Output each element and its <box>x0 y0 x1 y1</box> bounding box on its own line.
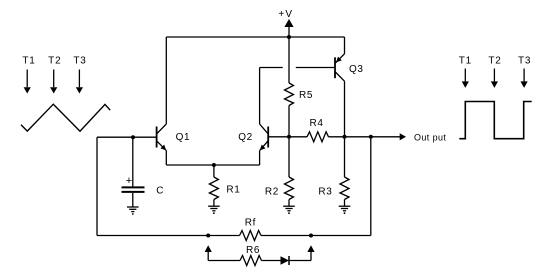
capacitor C <box>122 137 165 207</box>
wire diode to right tap <box>289 260 311 262</box>
svg-text:T3: T3 <box>518 55 531 66</box>
svg-text:Q2: Q2 <box>238 132 253 143</box>
node T1 label (input) <box>22 55 35 66</box>
transistor Q2 <box>238 124 268 165</box>
arrow marker T3 output <box>521 69 528 88</box>
svg-text:Q3: Q3 <box>349 64 364 75</box>
svg-text:R3: R3 <box>318 187 332 198</box>
node T2 label (input) <box>48 55 61 66</box>
wire R6 branch left <box>208 260 240 262</box>
wire Q3 base segment (after jump over R5 line) <box>296 67 334 69</box>
svg-text:Rf: Rf <box>245 218 256 229</box>
wire feedback line left segment <box>97 235 240 237</box>
svg-text:R2: R2 <box>265 187 279 198</box>
resistor R4 <box>307 118 329 142</box>
node T2 label (output) <box>488 55 501 66</box>
wire emitter rail <box>166 164 259 166</box>
wire Q1 collector to rail <box>165 37 167 124</box>
svg-text:+V: +V <box>278 9 293 20</box>
wire Q1 base left <box>97 136 157 138</box>
ground below R3 <box>339 206 351 214</box>
wire feedback line right segment <box>261 235 371 237</box>
svg-text:R5: R5 <box>299 90 313 101</box>
node junction output line at Q3 collector/R3 <box>343 135 347 139</box>
diode D1 <box>281 256 290 265</box>
square output waveform <box>459 102 531 139</box>
resistor R5 <box>285 37 313 137</box>
resistor R2 <box>265 137 294 206</box>
transistor Q1 <box>157 124 191 165</box>
transistor Q3 <box>335 54 364 81</box>
svg-text:R4: R4 <box>310 118 324 129</box>
wire output line right segment <box>329 136 401 138</box>
output arrow <box>400 133 406 140</box>
svg-text:T2: T2 <box>488 55 501 66</box>
svg-text:+: + <box>126 175 132 187</box>
node junction emitter rail / R1 <box>212 163 216 167</box>
node junction Q1 base / C top <box>131 135 135 139</box>
node junction feedback tap right <box>309 234 313 238</box>
node junction feedback tap left <box>206 234 210 238</box>
wire top +V rail <box>166 36 344 38</box>
node junction on +V rail <box>287 35 291 39</box>
svg-text:Q1: Q1 <box>176 132 191 143</box>
arrow marker T1 output <box>462 69 469 88</box>
node junction output line at feedback tap <box>369 135 373 139</box>
node junction output line at R5/R2 <box>287 135 291 139</box>
arrow marker T3 input <box>76 70 83 94</box>
node T3 label (input) <box>73 55 86 66</box>
arrow marker T2 input <box>50 70 57 94</box>
arrow tap left (points up at feedback line) <box>205 245 212 260</box>
node T1 label (output) <box>459 55 472 66</box>
svg-text:Out put: Out put <box>414 132 446 142</box>
ground below C <box>127 207 139 215</box>
ground below R1 <box>208 206 220 214</box>
node Output label <box>414 132 446 142</box>
power +V symbol <box>278 9 293 37</box>
resistor R6 <box>240 245 262 266</box>
svg-text:C: C <box>156 186 164 197</box>
ground below R2 <box>283 206 295 214</box>
triangle input waveform <box>21 104 110 131</box>
wire rail down to Q3 emitter <box>344 37 346 54</box>
svg-text:R1: R1 <box>226 184 240 195</box>
svg-text:T3: T3 <box>73 55 86 66</box>
resistor Rf <box>240 218 262 241</box>
svg-text:T2: T2 <box>48 55 61 66</box>
wire right feedback drop <box>370 137 372 236</box>
resistor R1 <box>209 165 240 206</box>
wire Q2 collector up and over to Q3 base <box>260 68 283 125</box>
wire Q3 collector down to output node <box>344 81 346 137</box>
wire Q2 base / output line left segment <box>269 136 307 138</box>
arrow tap right (points up at feedback line) <box>307 245 314 260</box>
resistor R3 <box>318 137 349 206</box>
arrow marker T2 output <box>491 69 498 88</box>
svg-text:T1: T1 <box>459 55 472 66</box>
svg-text:T1: T1 <box>22 55 35 66</box>
node T3 label (output) <box>518 55 531 66</box>
wire R6 to diode <box>262 260 281 262</box>
arrow marker T1 input <box>24 70 31 94</box>
wire left feedback drop <box>96 137 98 235</box>
svg-text:R6: R6 <box>246 245 260 256</box>
